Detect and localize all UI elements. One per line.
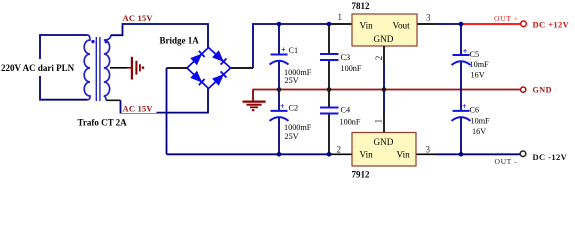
earth ground symbol — [243, 90, 266, 112]
svg-text:DC +12V: DC +12V — [533, 20, 570, 30]
svg-text:C4: C4 — [341, 105, 351, 114]
transformer T1 primary loop wire — [40, 35, 88, 100]
diode D1 left-to-top — [191, 51, 205, 65]
wire bridge right to top rail — [253, 24, 332, 68]
svg-text:16V: 16V — [472, 127, 486, 136]
svg-text:Trafo CT 2A: Trafo CT 2A — [78, 118, 128, 128]
wire secondary bottom stub (black) — [106, 99, 120, 101]
diode D2 top-to-right — [212, 51, 226, 65]
capacitor C2 vertical wire — [278, 90, 280, 111]
svg-text:100nF: 100nF — [340, 118, 361, 127]
svg-text:Vin: Vin — [397, 149, 411, 159]
center tap ground (rotated bars) — [127, 57, 144, 80]
svg-text:100nF: 100nF — [341, 64, 362, 73]
wire bridge left corner stub (black) — [167, 67, 188, 69]
junction C3 top rail — [327, 22, 332, 27]
wire bridge left to bottom rail — [166, 68, 168, 154]
terminal OUT- — [520, 151, 526, 157]
capacitor C5 vertical wire — [460, 24, 462, 55]
capacitor C3 leads — [328, 24, 330, 53]
svg-text:3: 3 — [426, 12, 431, 22]
capacitor C3 — [320, 53, 362, 73]
svg-text:DC -12V: DC -12V — [533, 152, 568, 162]
svg-text:AC 15V: AC 15V — [123, 13, 154, 23]
diode D3 left-to-bottom — [191, 71, 205, 85]
regulator U1 7812 pin1 wire — [332, 23, 352, 25]
bottom rail — [167, 153, 333, 155]
regulator U2 7912 pin2 wire — [332, 153, 352, 155]
wire bridge right corner stub (black) — [231, 67, 253, 69]
regulator U2 7912 box — [352, 133, 416, 167]
transformer T1 primary winding — [84, 35, 90, 100]
transformer T1 core — [95, 37, 97, 101]
svg-text:+: + — [462, 102, 467, 111]
svg-text:+: + — [280, 102, 285, 111]
junction C2 bottom rail — [277, 152, 282, 157]
svg-text:GND: GND — [374, 137, 394, 147]
polarity dot secondary — [105, 40, 108, 43]
GND rail (red) — [253, 89, 521, 91]
capacitor C4 — [320, 105, 361, 126]
junction C3-C4 GND rail — [327, 87, 332, 92]
junction regulator GND pins rail — [382, 87, 387, 92]
svg-text:C2: C2 — [289, 104, 299, 113]
terminal OUT+ — [521, 21, 527, 27]
svg-text:GND: GND — [374, 34, 394, 44]
transformer center tap wire — [110, 67, 127, 69]
svg-text:AC 15V: AC 15V — [123, 104, 154, 114]
wire top rail between regulators — [417, 23, 438, 25]
diode D4 bottom-to-right — [212, 71, 226, 85]
svg-text:OUT +: OUT + — [494, 14, 519, 23]
svg-text:C1: C1 — [289, 46, 299, 55]
svg-text:OUT -: OUT - — [495, 157, 518, 166]
wire red OUT+ — [461, 23, 521, 25]
svg-text:220V AC dari PLN: 220V AC dari PLN — [1, 63, 75, 73]
svg-text:10mF: 10mF — [470, 60, 490, 69]
svg-text:+: + — [463, 47, 468, 56]
capacitor C1 — [270, 46, 312, 86]
svg-text:16V: 16V — [471, 70, 485, 79]
capacitor C4 leads — [328, 90, 330, 107]
svg-text:25V: 25V — [285, 132, 299, 141]
svg-text:C3: C3 — [341, 53, 351, 62]
svg-text:Bridge 1A: Bridge 1A — [160, 35, 200, 45]
label AC 15V bottom — [122, 103, 157, 114]
svg-text:Vin: Vin — [360, 149, 374, 159]
svg-text:2: 2 — [337, 144, 342, 154]
svg-text:C6: C6 — [470, 105, 480, 114]
junction C1-C2 GND rail — [277, 87, 282, 92]
junction C1 top rail — [277, 22, 282, 27]
svg-text:1: 1 — [374, 119, 384, 124]
polarity dot primary — [91, 40, 94, 43]
svg-text:7812: 7812 — [352, 1, 371, 11]
svg-text:C5: C5 — [470, 50, 480, 59]
svg-text:GND: GND — [533, 86, 552, 95]
svg-text:7912: 7912 — [352, 169, 371, 179]
capacitor C1 vertical wire — [278, 24, 280, 55]
regulator U1 7812 box — [352, 14, 417, 46]
wire secondary bottom to bridge — [121, 88, 209, 113]
svg-text:1: 1 — [338, 12, 343, 22]
svg-text:+: + — [281, 46, 286, 55]
junction C5 top rail — [459, 22, 464, 27]
svg-text:Vout: Vout — [393, 21, 411, 31]
terminal GND — [521, 87, 526, 92]
svg-text:3: 3 — [426, 144, 431, 154]
capacitor C6 — [452, 102, 491, 136]
svg-text:10mF: 10mF — [471, 117, 491, 126]
regulator U2 7912 pin1 wire — [383, 90, 385, 113]
regulator U1 pin2 wire — [383, 46, 385, 65]
junction C4 bottom rail — [327, 152, 332, 157]
svg-text:Vin: Vin — [360, 21, 374, 31]
svg-text:25V: 25V — [285, 76, 299, 85]
capacitor C5 — [452, 47, 490, 80]
capacitor C6 bottom wire — [460, 117, 462, 154]
label 220V AC dari PLN — [0, 59, 78, 76]
transformer T1 secondary winding — [104, 35, 111, 100]
wire secondary top to AC node — [111, 24, 208, 48]
svg-text:2: 2 — [375, 55, 385, 60]
bridge diamond outline — [187, 48, 231, 89]
svg-text:1000mF: 1000mF — [284, 123, 312, 132]
junction C6 bottom rail — [459, 152, 464, 157]
capacitor C2 — [270, 102, 312, 141]
